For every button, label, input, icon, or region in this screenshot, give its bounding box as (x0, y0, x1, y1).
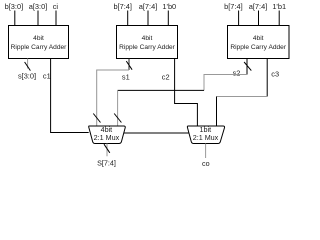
mux M2: 1bit 2:1 Mux (187, 125, 224, 144)
input label 1'b0 (162, 2, 176, 11)
bus slash on s1 (126, 61, 132, 70)
svg-text:b[3:0]: b[3:0] (5, 2, 24, 11)
node label s1 (122, 73, 130, 82)
node label c2 (162, 73, 170, 82)
wire s2 drop into mux M1 input 1 (117, 90, 119, 126)
input label 1'b1 (272, 2, 286, 11)
adder U1: 4bit Ripple Carry Adder (9, 26, 69, 59)
wire 1'b0 to U2 (167, 11, 169, 26)
wire c3 drop into mux M2 input 1 (216, 97, 218, 127)
svg-text:2:1 Mux: 2:1 Mux (193, 133, 219, 142)
svg-text:4bit: 4bit (33, 35, 44, 42)
input label b[3:0] (5, 2, 24, 11)
svg-text:s[3:0]: s[3:0] (18, 72, 36, 81)
input label b[7:4] (adder U2) (113, 2, 132, 11)
wire a[3:0] to U1 (37, 11, 39, 26)
adder U2: 4bit Ripple Carry Adder (117, 26, 178, 59)
mux M1: 4bit 2:1 Mux (89, 125, 126, 144)
wire c2 from U2 to mux M2 input 0 (175, 59, 198, 127)
input label b[7:4] (adder U3) (224, 2, 243, 11)
wire a[7:4] to U2 (147, 11, 149, 26)
output label co (202, 159, 210, 168)
wire a[7:4] to U3 (258, 11, 260, 26)
input label a[3:0] (29, 2, 48, 11)
input label a[7:4] (adder U2) (139, 2, 158, 11)
svg-text:s1: s1 (122, 73, 130, 82)
wire select between mux M1 and mux M2 (124, 132, 189, 134)
wire c1 from U1 to mux select (51, 59, 89, 133)
input label ci (53, 2, 59, 11)
wire s[3:0] output stub (27, 59, 29, 69)
wire c3 vertical from U3 (266, 59, 268, 97)
wire ci to U1 (55, 11, 57, 26)
svg-text:ci: ci (53, 2, 59, 11)
svg-text:1'b1: 1'b1 (272, 2, 286, 11)
wire b[7:4] to U3 (238, 11, 240, 26)
wire b[3:0] to U1 (14, 11, 16, 26)
svg-text:c1: c1 (43, 72, 51, 81)
svg-text:2:1 Mux: 2:1 Mux (94, 133, 120, 142)
bus slash on S[7:4] (104, 144, 110, 153)
svg-text:a[7:4]: a[7:4] (139, 2, 158, 11)
wire co output stub (205, 144, 207, 159)
input label a[7:4] (adder U3) (249, 2, 268, 11)
output label S[7:4] (97, 158, 116, 167)
adder U3: 4bit Ripple Carry Adder (228, 26, 290, 59)
svg-text:s2: s2 (233, 68, 241, 77)
svg-text:Ripple Carry Adder: Ripple Carry Adder (119, 44, 176, 51)
wire S[7:4] output stub (106, 144, 108, 157)
node label c3 (271, 69, 279, 78)
wire c3 horizontal (217, 96, 268, 98)
wire 1'b1 to U3 (278, 11, 280, 26)
bus slash on s[3:0] (25, 62, 31, 71)
svg-text:c2: c2 (162, 73, 170, 82)
wire s2 stub from U3 (246, 59, 248, 75)
svg-text:4bit: 4bit (142, 35, 153, 42)
svg-text:Ripple Carry Adder: Ripple Carry Adder (230, 44, 287, 51)
svg-text:4bit: 4bit (253, 35, 264, 42)
svg-text:a[3:0]: a[3:0] (29, 2, 48, 11)
wire s1 to mux M1 input 0 (97, 70, 129, 126)
node label c1 (43, 72, 51, 81)
svg-text:S[7:4]: S[7:4] (97, 158, 116, 167)
svg-text:a[7:4]: a[7:4] (249, 2, 268, 11)
svg-text:1'b0: 1'b0 (162, 2, 176, 11)
svg-text:c3: c3 (271, 69, 279, 78)
bus slash on mux M1 input 1 (114, 114, 121, 123)
svg-text:b[7:4]: b[7:4] (113, 2, 132, 11)
svg-text:Ripple Carry Adder: Ripple Carry Adder (11, 44, 68, 51)
wire s2 horizontal to mux M1 (118, 89, 204, 91)
bus slash on mux M1 input 0 (93, 114, 100, 123)
node label s[3:0] (18, 72, 36, 81)
svg-text:co: co (202, 159, 210, 168)
node label s2 (233, 68, 241, 77)
bus slash on s2 (244, 62, 251, 71)
wire s2 upper jog (204, 75, 247, 91)
svg-text:b[7:4]: b[7:4] (224, 2, 243, 11)
wire b[7:4] to U2 (127, 11, 129, 26)
wire s1 stub from U2 (128, 59, 130, 71)
